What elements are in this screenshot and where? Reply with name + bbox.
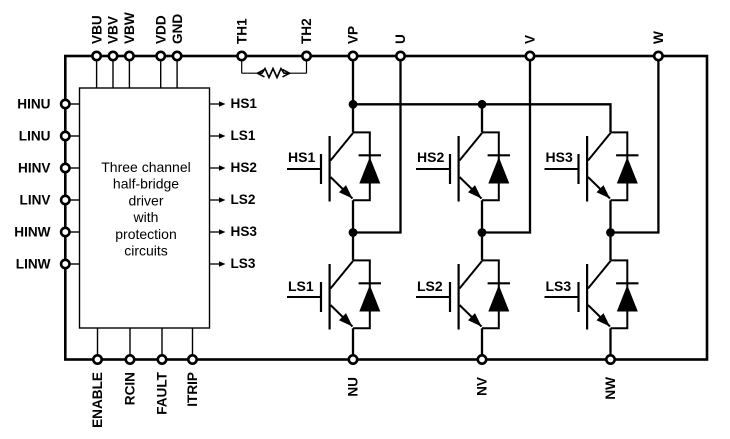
pin ENABLE xyxy=(90,355,105,428)
pin NU xyxy=(346,355,361,396)
svg-text:HINV: HINV xyxy=(18,160,50,175)
node V phase xyxy=(478,228,487,237)
wire U node to LS1 collector xyxy=(352,233,354,261)
pin LINW xyxy=(16,256,70,271)
svg-text:HS2: HS2 xyxy=(417,149,444,165)
svg-text:HINU: HINU xyxy=(17,96,50,111)
transistor LS2 xyxy=(416,261,482,330)
svg-text:driver: driver xyxy=(128,192,163,208)
svg-text:half-bridge: half-bridge xyxy=(113,176,179,192)
diode across LS1 xyxy=(353,260,381,328)
pin GND xyxy=(170,14,185,61)
pin HINU xyxy=(17,96,69,111)
svg-text:NW: NW xyxy=(603,377,618,400)
wire VP drop to HS1 collector xyxy=(352,56,354,132)
pin HINV xyxy=(18,160,69,175)
svg-text:protection: protection xyxy=(115,226,176,242)
svg-text:NV: NV xyxy=(475,377,490,396)
junction rail/HS2 xyxy=(478,100,487,109)
pin VBW xyxy=(122,12,137,60)
wire VBV stub xyxy=(112,56,114,88)
node U phase xyxy=(349,228,358,237)
pin ITRIP xyxy=(185,355,200,406)
wire V node to LS2 collector xyxy=(481,233,483,261)
svg-text:FAULT: FAULT xyxy=(155,371,170,414)
svg-text:VP: VP xyxy=(346,26,361,44)
wire LINW stub xyxy=(65,263,79,265)
pin FAULT xyxy=(155,355,170,414)
svg-text:U: U xyxy=(393,34,408,44)
svg-text:LS3: LS3 xyxy=(231,256,256,271)
pin NW xyxy=(603,355,618,399)
svg-text:LS3: LS3 xyxy=(546,278,572,294)
svg-text:VBU: VBU xyxy=(89,15,104,44)
svg-text:ENABLE: ENABLE xyxy=(90,372,105,428)
transistor LS1 xyxy=(287,261,353,330)
transistor HS3 xyxy=(545,133,611,202)
junction rail/HS1 xyxy=(349,100,358,109)
svg-text:GND: GND xyxy=(170,14,185,44)
wire HS2 collector drop xyxy=(481,104,483,132)
pin RCIN xyxy=(123,355,138,405)
wire positive rail xyxy=(353,104,611,132)
transistor HS1 xyxy=(287,133,353,202)
svg-text:VBV: VBV xyxy=(106,16,121,44)
wire W node to LS3 collector xyxy=(609,233,611,261)
svg-text:LINW: LINW xyxy=(16,256,51,271)
pin V xyxy=(523,35,538,60)
wire HS3 output arrow xyxy=(210,229,226,235)
wire VBU stub xyxy=(96,56,98,88)
wire LINV stub xyxy=(65,199,79,201)
svg-text:TH2: TH2 xyxy=(299,18,314,44)
wire VBW stub xyxy=(128,56,130,88)
pin W xyxy=(651,31,666,60)
pin TH1 xyxy=(234,18,249,60)
svg-text:LINV: LINV xyxy=(20,192,51,207)
wire HS2 emitter to V node xyxy=(481,200,483,232)
node W phase xyxy=(606,228,615,237)
wire HS1 output arrow xyxy=(210,101,226,107)
diode across HS3 xyxy=(611,132,639,200)
diode across LS3 xyxy=(611,260,639,328)
svg-text:HS2: HS2 xyxy=(231,160,258,175)
svg-text:LS1: LS1 xyxy=(231,128,256,143)
wire LS1 emitter to NU xyxy=(352,328,354,359)
transistor LS3 xyxy=(545,261,611,330)
svg-text:V: V xyxy=(523,35,538,44)
wire LS2 output arrow xyxy=(210,197,226,203)
pin LINV xyxy=(20,192,70,207)
wire U node to U terminal xyxy=(353,56,401,233)
diode across HS1 xyxy=(353,132,381,200)
thermistor RT1 xyxy=(242,60,307,78)
wire ITRIP stub xyxy=(192,328,194,360)
pin HINW xyxy=(14,224,69,239)
svg-text:VBW: VBW xyxy=(122,12,137,44)
wire HINW stub xyxy=(65,231,79,233)
wire FAULT stub xyxy=(161,328,163,360)
svg-text:Three channel: Three channel xyxy=(101,159,191,175)
svg-text:with: with xyxy=(133,209,159,225)
svg-text:LINU: LINU xyxy=(19,128,51,143)
svg-text:HS3: HS3 xyxy=(546,149,573,165)
svg-text:W: W xyxy=(651,31,666,44)
wire VDD stub xyxy=(160,56,162,88)
wire HS3 emitter to W node xyxy=(609,200,611,232)
svg-text:LS2: LS2 xyxy=(231,192,256,207)
pin VBU xyxy=(89,15,104,60)
wire GND stub xyxy=(176,56,178,88)
svg-text:HS1: HS1 xyxy=(231,96,258,111)
pin VDD xyxy=(153,15,168,60)
svg-text:HS1: HS1 xyxy=(288,149,315,165)
transistor HS2 xyxy=(416,133,482,202)
pin NV xyxy=(475,355,490,396)
wire RCIN stub xyxy=(129,328,131,360)
wire HS2 output arrow xyxy=(210,165,226,171)
svg-text:VDD: VDD xyxy=(153,15,168,44)
pin VP xyxy=(346,26,361,60)
driver block U1 xyxy=(80,88,210,328)
wire LINU stub xyxy=(65,135,79,137)
pin LINU xyxy=(19,128,70,143)
wire LS3 emitter to NW xyxy=(609,328,611,359)
wire HS1 emitter to U node xyxy=(352,200,354,232)
wire LS3 output arrow xyxy=(210,261,226,267)
pin TH2 xyxy=(299,18,314,60)
wire HINU stub xyxy=(65,103,79,105)
diode across LS2 xyxy=(482,260,510,328)
wire W node to W terminal xyxy=(611,56,659,233)
pin U xyxy=(393,34,408,60)
diode across HS2 xyxy=(482,132,510,200)
wire V node to V terminal xyxy=(482,56,530,233)
wire ENABLE stub xyxy=(97,328,99,360)
svg-text:LS2: LS2 xyxy=(417,278,443,294)
pin VBV xyxy=(106,16,121,60)
wire HINV stub xyxy=(65,167,79,169)
wire LS2 emitter to NV xyxy=(481,328,483,359)
svg-text:HINW: HINW xyxy=(14,224,50,239)
svg-text:ITRIP: ITRIP xyxy=(185,372,200,407)
svg-text:LS1: LS1 xyxy=(288,278,314,294)
module boundary xyxy=(65,56,707,360)
wire LS1 output arrow xyxy=(210,133,226,139)
svg-text:RCIN: RCIN xyxy=(123,372,138,405)
svg-text:HS3: HS3 xyxy=(231,224,258,239)
svg-text:TH1: TH1 xyxy=(234,18,249,44)
svg-text:circuits: circuits xyxy=(124,243,168,259)
svg-text:NU: NU xyxy=(346,377,361,397)
